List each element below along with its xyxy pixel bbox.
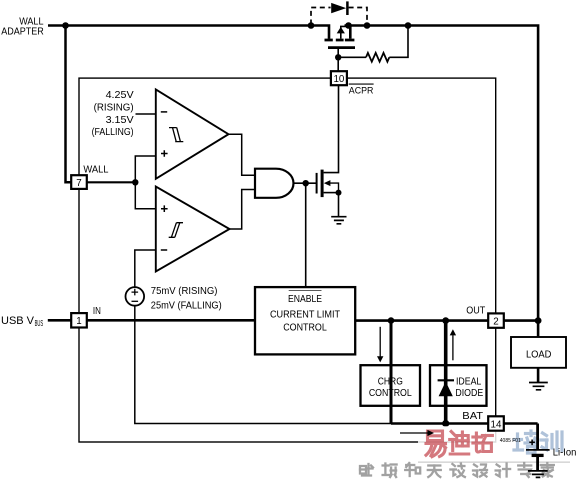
svg-text:75mV (RISING): 75mV (RISING): [151, 286, 218, 297]
wire: gate node to resistor: [338, 56, 366, 58]
svg-text:BUS: BUS: [35, 319, 44, 328]
op-amp U2 lower comparator with hysteresis: [156, 187, 230, 272]
wire: PFET gate down to gate node: [337, 49, 339, 57]
watermark text: red char tuo: [473, 433, 493, 452]
svg-text:1: 1: [76, 316, 81, 327]
svg-text:IDEAL: IDEAL: [456, 377, 481, 388]
label ACPR with overline: [349, 84, 374, 96]
node: PFET body tie dot: [345, 22, 352, 29]
svg-text:OUT: OUT: [466, 306, 486, 317]
IDEAL DIODE box U6: [430, 365, 487, 406]
wire: pin 7 to WALL node: [87, 181, 135, 183]
battery BT1 Li-Ion: [526, 424, 550, 471]
svg-text:USB V: USB V: [1, 315, 35, 327]
wire: U1/U2 plus input bracket from WALL node: [135, 156, 156, 209]
transistor Q1 internal NMOS ACPR driver: [317, 170, 339, 198]
svg-text:ADAPTER: ADAPTER: [1, 27, 44, 38]
arrow: charge current into battery: [400, 430, 434, 436]
wire: resistor up to rail: [389, 27, 408, 57]
svg-text:DIODE: DIODE: [455, 388, 483, 399]
CHRG CONTROL box U5: [361, 365, 421, 406]
svg-text:CURRENT LIMIT: CURRENT LIMIT: [270, 309, 341, 320]
svg-text:ENABLE: ENABLE: [288, 294, 322, 305]
wire: IDEAL DIODE thick vertical OUT to BAT: [444, 321, 448, 424]
voltage source V1 75mV offset: [126, 287, 145, 306]
svg-text:CONTROL: CONTROL: [369, 388, 412, 399]
node: ideal diode BAT junction dot: [442, 420, 449, 427]
node: resistor rail dot: [405, 22, 412, 29]
ENABLE CURRENT LIMIT CONTROL box U4: [255, 287, 355, 354]
wire: OUT line ENABLE box to pin 2: [355, 319, 488, 322]
IC boundary: [79, 78, 496, 442]
pin 1 box: [71, 313, 87, 327]
ground under battery: [528, 471, 548, 478]
svg-text:10: 10: [333, 74, 344, 85]
wire: USB VBUS into pin 1: [48, 319, 72, 322]
wire: U2 output to AND: [230, 190, 256, 230]
wire: NMOS source to ground: [338, 193, 340, 216]
wire: BAT sense thin from source circle down and along bottom: [135, 306, 391, 424]
svg-text:CONTROL: CONTROL: [283, 323, 327, 334]
wire: dashed body-diode branch left: [311, 8, 331, 25]
wire: U1 minus input stub: [136, 113, 156, 115]
node: AND output dot: [303, 180, 309, 186]
svg-text:4.25V: 4.25V: [106, 90, 134, 101]
node: gate node dot: [335, 54, 341, 60]
watermark text: blue char pei: [514, 431, 537, 453]
svg-text:Li-Ion: Li-Ion: [553, 448, 577, 459]
wire: IN line pin1 to ENABLE box: [87, 319, 255, 322]
svg-text:3.15V: 3.15V: [106, 115, 134, 126]
node: dashed diode left dot: [308, 22, 315, 29]
watermark text: gray tagline: [360, 464, 373, 476]
svg-text:2: 2: [493, 316, 498, 327]
ground under NMOS: [331, 217, 346, 224]
op-amp U1 upper comparator with hysteresis: [156, 90, 229, 179]
svg-text:7: 7: [76, 178, 81, 189]
wire: pin 14 to battery: [504, 422, 538, 424]
node: load node dot: [535, 317, 542, 324]
watermark background box: [418, 426, 570, 462]
diode D2 ideal diode symbol: [438, 380, 454, 396]
node: dot wall rail to pin7 drop: [62, 22, 69, 29]
svg-text:ACPR: ACPR: [349, 85, 374, 96]
resistor R1 gate pull-up: [366, 53, 389, 62]
svg-text:IN: IN: [93, 306, 101, 317]
node: dashed diode right dot: [364, 22, 371, 29]
watermark text: red char di: [450, 432, 469, 455]
wire: WALL ADAPTER main rail right segment to right edge and down to OUT node: [345, 26, 539, 321]
svg-text:25mV (FALLING): 25mV (FALLING): [151, 300, 222, 311]
wire: dashed body-diode branch right: [349, 8, 367, 25]
wire: wall adapter drop to pin 7: [66, 24, 72, 182]
wire: AND output down to ENABLE box: [305, 183, 307, 287]
arrow: charge current down into CHRG: [377, 327, 383, 363]
transistor M1 external PFET: [325, 25, 356, 48]
wire: U1 output to AND: [229, 134, 256, 175]
wire: pin 2 to load node: [504, 319, 538, 322]
pin 10 box: [331, 71, 347, 85]
wire: BAT line thick to pin 14: [391, 422, 488, 425]
svg-text:(FALLING): (FALLING): [92, 127, 134, 138]
ground under LOAD: [529, 383, 548, 390]
LOAD box: [511, 337, 566, 368]
node: NMOS source body dot: [336, 190, 342, 196]
node: WALL input node dot: [132, 179, 138, 185]
wire: pin10 down to internal NMOS drain: [324, 85, 339, 172]
label WALL ADAPTER: [1, 16, 44, 37]
pin 14 box: [488, 416, 504, 430]
wire: load node down to LOAD box: [537, 321, 540, 337]
watermark text: red char yi: [426, 431, 446, 457]
svg-text:LOAD: LOAD: [526, 350, 552, 361]
AND gate U3: [255, 169, 294, 198]
wire: WALL ADAPTER main rail left segment into PFET source: [48, 26, 329, 39]
diode D1 PFET body diode: [331, 1, 347, 15]
pin 7 box: [71, 175, 87, 189]
watermark text: blue char xun: [541, 432, 562, 451]
label threshold 4.25V 3.15V: [92, 90, 134, 138]
arrow: ideal diode current up: [450, 329, 456, 360]
pin 2 box: [488, 313, 504, 327]
node: ideal diode tee dot: [442, 317, 449, 324]
wire: CHRG thick vertical OUT to BAT: [390, 321, 393, 424]
svg-text:BAT: BAT: [462, 411, 483, 422]
wire: U2 minus input down to offset source: [135, 250, 156, 287]
svg-text:WALL: WALL: [83, 164, 108, 175]
svg-text:(RISING): (RISING): [94, 102, 134, 113]
svg-text:CHRG: CHRG: [378, 377, 403, 388]
wire: LOAD to ground: [537, 368, 540, 382]
wire: AND output to NMOS gate: [294, 182, 316, 184]
svg-text:4085 F01: 4085 F01: [500, 438, 521, 444]
wire: gate node down to pin 10: [337, 57, 339, 71]
svg-text:14: 14: [491, 419, 502, 430]
node: CHRG tee dot: [388, 317, 395, 324]
